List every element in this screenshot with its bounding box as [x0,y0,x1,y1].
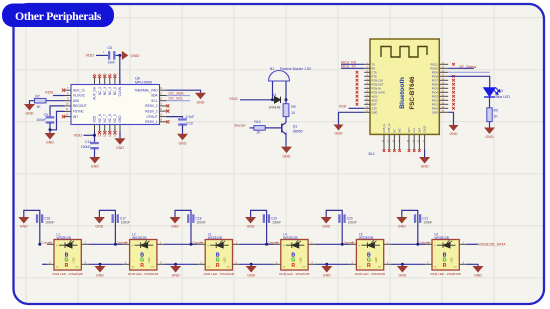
svg-text:GND: GND [322,225,330,229]
diode D4 1N4148 [275,97,281,103]
pin NC_3 (top) [104,78,106,85]
svg-text:VDD: VDD [339,104,347,108]
pin TX (BT left) [364,63,370,65]
svg-text:RGB LED - WS2812B: RGB LED - WS2812B [204,272,234,276]
svg-text:D3: D3 [499,89,503,93]
svg-text:GND: GND [197,101,205,105]
svg-text:VDD: VDD [74,133,83,138]
wire gnd rail L1 [88,263,122,265]
wire C21 feed [402,210,418,244]
svg-text:CPOUT: CPOUT [146,115,157,119]
no-connect RESV [166,104,169,107]
svg-text:PIO4: PIO4 [432,90,438,94]
svg-text:NC_7: NC_7 [103,114,107,122]
no-connect NC top [93,75,96,78]
wire to ground L4 [326,264,328,266]
wire to R9 [285,100,287,104]
svg-text:WS2812B: WS2812B [359,236,373,240]
wire R10 to base [265,127,282,129]
no-connect NC bottom [98,131,101,134]
junction at C8/CLKIN [118,54,121,57]
svg-text:GND: GND [172,274,180,278]
svg-text:WS2812B: WS2812B [132,236,146,240]
svg-text:CLKIN: CLKIN [118,86,122,96]
ground (Q1) [281,147,292,159]
svg-text:GND: GND [247,274,255,278]
wire C10 to ground [182,125,184,134]
wire D3 to R5 [489,97,491,108]
no-connect PIO2 [452,99,455,102]
svg-text:GND: GND [247,225,255,229]
svg-text:Buzzer: Buzzer [235,124,247,128]
svg-text:TX: TX [372,62,376,66]
svg-text:FSYNC: FSYNC [73,110,85,114]
pin NC_6 (bottom) [99,125,101,132]
svg-text:LED: LED [223,257,227,262]
wire VDD to 3.3V pin [349,107,365,109]
wire C9 bottom [49,123,51,130]
junction L2 VDD [114,243,117,246]
junction C9/FSYNC [49,128,52,131]
ground (L4 cap) [245,217,256,229]
svg-text:DO: DO [302,266,306,268]
antenna trace [381,47,427,58]
pin VSS (right bottom, L6) [459,263,466,265]
diode symbol inside L6 [437,240,456,248]
svg-text:GND: GND [486,135,494,139]
wire buzzer left leg [272,81,274,100]
wire C18 feed [175,210,191,244]
svg-text:GND: GND [432,110,438,114]
junction gnd rail L1 [99,263,102,266]
pin PCM SYNC (BT left) [364,91,370,93]
svg-text:GND: GND [372,110,378,114]
svg-text:RX: RX [372,66,376,70]
svg-text:REGOUT: REGOUT [73,104,87,108]
svg-text:LED: LED [450,257,454,262]
svg-text:DO: DO [227,266,231,268]
svg-text:100nF: 100nF [121,220,130,224]
svg-text:GND: GND [450,132,458,136]
svg-text:RESV_1: RESV_1 [145,120,157,124]
wire gnd rail end [466,263,472,265]
ground (L1 cap) [18,217,29,229]
svg-text:Cascade: Cascade [268,240,279,244]
wire VDD pin to C11 [94,132,96,144]
no-connect MIC- [398,149,401,152]
ground (L3 cap) [170,217,181,229]
ground (rail L3) [246,266,257,278]
pin PIO3 (BT right) [439,95,448,97]
pin RESV_1 (right) [160,121,167,123]
svg-text:PIO7: PIO7 [432,78,438,82]
ground (BT bottom) [419,157,430,169]
svg-text:LED: LED [147,257,151,262]
pin USB_D+ (BT bottom) [388,134,390,149]
LED L1 WS2812B body [54,240,81,271]
wire to ground L3 [250,264,252,266]
pin VDD (left top, L3) [198,243,205,245]
svg-text:PIO6: PIO6 [432,82,438,86]
svg-text:1N4148: 1N4148 [269,105,281,109]
svg-text:NC: NC [393,129,396,133]
svg-text:Q1: Q1 [293,124,298,128]
pin MIC- (BT bottom) [399,134,401,149]
wire PIO10 [448,67,474,69]
svg-text:Cascade: Cascade [419,240,430,244]
svg-text:B1: B1 [270,67,274,71]
no-connect INT [62,115,65,118]
pin THERMAL_PAD (right) [160,89,167,91]
svg-text:C9: C9 [44,113,48,117]
pin AIO0 (BT left) [364,95,370,97]
no-connect PIO3 [452,95,455,98]
svg-text:GND: GND [335,132,343,136]
no-connect PIO11 [452,63,455,66]
svg-text:1K: 1K [37,105,42,109]
svg-text:RGB LED - WS2812B: RGB LED - WS2812B [430,272,460,276]
wire GND pin to ground [339,112,365,124]
pin MIC+ (BT bottom) [408,134,410,149]
no-connect RTS [356,75,359,78]
no-connect PCM OUT [356,83,359,86]
no-connect MIC+ [408,149,411,152]
svg-text:I2C_SDA: I2C_SDA [169,91,185,95]
svg-text:Cascade: Cascade [41,240,52,244]
svg-text:DI: DI [207,266,210,268]
svg-text:D4: D4 [272,93,276,97]
wire GND pin [119,132,121,139]
svg-text:USB_D+: USB_D+ [388,123,391,133]
svg-text:PCM OUT: PCM OUT [372,82,384,86]
no-connect USB_D+ [388,149,391,152]
svg-text:R5: R5 [494,109,498,113]
svg-text:DO: DO [151,266,155,268]
wire data L2 to L3 [164,243,198,245]
svg-text:PIO1: PIO1 [432,102,438,106]
junction L5 VDD [341,243,344,246]
svg-text:1K: 1K [494,115,499,119]
junction L6 VDD [416,243,419,246]
svg-text:GND: GND [323,274,331,278]
svg-text:100nF: 100nF [45,220,54,224]
pin DOUT (right top, L5) [384,243,391,245]
svg-text:10nF: 10nF [108,60,116,64]
no-connect PIO0 [452,107,455,110]
svg-text:WS2812B: WS2812B [435,236,449,240]
svg-text:PCM SYNC: PCM SYNC [372,90,386,94]
pin PIO0 (BT right) [439,107,448,109]
svg-text:PIO0: PIO0 [432,106,438,110]
ground (thermal pad) [195,93,206,105]
svg-text:PCM IN: PCM IN [372,86,381,90]
svg-text:Passive Buzzer 1.5V: Passive Buzzer 1.5V [280,67,312,71]
pin PCM CLK (BT left) [364,79,370,81]
svg-text:C11: C11 [85,140,91,144]
svg-text:R: R [140,263,144,269]
svg-text:NC_3: NC_3 [103,87,107,95]
svg-text:PIO3: PIO3 [432,94,438,98]
svg-text:100nF: 100nF [348,220,357,224]
no-connect NC bottom [108,131,111,134]
ground (sideways GND port) [122,51,129,60]
wire CLKIN vertical [119,55,121,84]
wire DIN stub L1 [42,263,47,265]
no-connect CLK [413,149,416,152]
diode symbol inside L3 [210,240,229,248]
pin AD0 (left 3) [65,100,72,102]
pin VDD (left top, L6) [425,243,432,245]
wire SDA (highlighted) [167,95,191,97]
pin VDD (bottom) [94,125,96,132]
pin PIO7 (BT right) [439,79,448,81]
no-connect NC top [98,75,101,78]
ground (rail L4) [321,266,332,278]
svg-text:GND2: GND2 [424,125,427,132]
pin DIN (left bottom, L1) [47,263,54,265]
svg-text:SDA: SDA [151,94,158,98]
pin PIO11 (BT right) [439,63,448,65]
wire C16 feed [24,210,40,244]
ground (rail L1) [95,266,106,278]
svg-text:CLK: CLK [413,127,416,132]
no-connect PIO8 [452,75,455,78]
svg-text:NC_4: NC_4 [108,87,112,95]
capacitor C11 [90,142,99,149]
svg-text:I2C_SCL: I2C_SCL [169,97,184,101]
pin DAT (BT bottom) [418,134,420,149]
svg-text:NC_2: NC_2 [98,87,102,95]
IC U8 MPU-6050 body [71,85,160,125]
wire to ground L2 [175,264,177,266]
pin VSS (right bottom, L2) [157,263,164,265]
pin CPOUT (right) [160,116,167,118]
wire FSYNC to junction [50,111,65,129]
svg-text:GND: GND [179,142,187,146]
ground (C9) [45,133,56,145]
svg-text:Cascade: Cascade [193,240,204,244]
junction L4 VDD [265,243,268,246]
pin VSS (right bottom, L1) [81,263,88,265]
pin AUX_CL (left 1) [65,89,72,91]
svg-text:GND: GND [474,274,482,278]
pin VDD (left top, L5) [349,243,356,245]
svg-text:1K: 1K [256,131,261,135]
svg-text:AIO0: AIO0 [372,94,378,98]
pin 3.3V (BT left) [364,107,370,109]
no-connect RESV [166,120,169,123]
svg-text:C10: C10 [187,122,193,126]
no-connect AIO0 [356,95,359,98]
LED L6 WS2812B body [432,240,459,271]
pin PIO1 (BT right) [439,103,448,105]
svg-text:GND: GND [283,154,291,158]
wire C19 feed [251,210,267,244]
ground (L2 cap) [94,217,105,229]
no-connect NC top [108,75,111,78]
svg-text:Cascade: Cascade [344,240,355,244]
svg-text:BL1: BL1 [369,152,375,156]
svg-text:GND: GND [20,225,28,229]
no-connect NC bottom [103,131,106,134]
svg-text:DAT: DAT [418,127,421,132]
diode symbol inside L5 [361,240,380,248]
svg-text:RTS: RTS [372,74,377,78]
pin VSS (right bottom, L3) [233,263,240,265]
pin NC_9 (bottom) [114,125,116,132]
svg-text:Bluetooth: Bluetooth [399,77,406,109]
wire Buzzer to R10 [250,127,254,129]
no-connect RESV [166,110,169,113]
LED L2 WS2812B body [130,240,157,271]
ground (L6 cap) [396,217,407,229]
svg-text:Other Peripherals: Other Peripherals [15,9,102,23]
pin GND (bottom) [119,125,121,132]
no-connect DAT [418,149,421,152]
wire data L3 to L4 [240,243,274,245]
svg-text:PIO10: PIO10 [430,66,438,70]
wire gnd rail L2 [164,263,198,265]
pin DOUT (right top, L4) [308,243,315,245]
no-connect PCM IN [356,87,359,90]
pin PIO5 (BT right) [439,87,448,89]
resistor R5 [487,108,492,122]
wire PIO8 to LED D3 [448,76,490,87]
svg-text:PIO11: PIO11 [431,62,439,66]
junction gnd rail L4 [325,263,328,266]
no-connect PIO4 [452,91,455,94]
wire data L4 to L5 [315,243,349,245]
junction D4 anode [271,98,274,101]
svg-text:NC_5: NC_5 [113,87,117,95]
svg-text:VDD: VDD [229,96,238,101]
svg-text:WS2812B_DATA: WS2812B_DATA [478,242,506,246]
pin DOUT (right top, L2) [157,243,164,245]
pin CLK (BT bottom) [413,134,415,149]
pin DIN (left bottom, L3) [198,263,205,265]
no-connect CTS [356,71,359,74]
svg-text:MPU-6050: MPU-6050 [135,81,152,85]
ground (BT right) [449,125,459,136]
svg-text:RST: RST [372,102,378,106]
ground (R7) [24,104,35,116]
wire CPOUT to C10 [167,117,183,118]
pin PCM IN (BT left) [364,87,370,89]
capacitor C8 [108,51,115,60]
svg-text:100nF: 100nF [423,220,432,224]
svg-text:GND: GND [95,225,103,229]
svg-text:PIO5: PIO5 [432,86,438,90]
capacitor C16 [36,214,43,223]
svg-text:GND: GND [96,274,104,278]
svg-text:DO: DO [378,266,382,268]
ground (rail end) [473,266,484,278]
pin PCM OUT (BT left) [364,83,370,85]
LED D3 Blue LED [484,88,500,98]
svg-text:RGB LED - WS2812B: RGB LED - WS2812B [355,272,385,276]
wire BT bottom GND [424,150,426,158]
pin DOUT (right top, L3) [233,243,240,245]
no-connect NC [393,149,396,152]
pin SCL (right) [160,100,167,102]
capacitor C18 [187,214,194,223]
svg-text:DO: DO [76,266,80,268]
svg-text:Blue LED: Blue LED [496,95,511,99]
svg-text:PCM CLK: PCM CLK [372,78,384,82]
svg-text:LED: LED [72,257,76,262]
svg-text:PIO8: PIO8 [432,74,438,78]
pin GND (BT left) [364,111,370,113]
svg-text:AUX_DA: AUX_DA [93,86,97,100]
svg-text:GND: GND [46,141,54,145]
pin DIN (left bottom, L4) [274,263,281,265]
svg-text:GND: GND [421,165,429,169]
pin VSS (right bottom, L5) [384,263,391,265]
capacitor C21 [414,214,421,223]
wire data L1 to L2 [88,243,122,245]
svg-text:R7: R7 [36,94,40,98]
pin VLOGIC (left 2) [65,95,72,97]
pin DIN (left bottom, L2) [123,263,130,265]
wire PIO9 (highlighted) [448,71,490,73]
wire data out [466,243,478,245]
wire data L5 to L6 [391,243,425,245]
svg-text:LED: LED [374,257,378,262]
svg-text:R9: R9 [291,105,295,109]
no-connect NC top [103,75,106,78]
pin VDD (left top, L1) [47,243,54,245]
svg-text:RESV_2: RESV_2 [145,104,157,108]
svg-text:GND: GND [398,225,406,229]
junction VDD/C11 [93,134,96,137]
ground (rail L5) [397,266,408,278]
svg-text:AUX_CL: AUX_CL [73,88,86,92]
svg-text:2.2nF: 2.2nF [186,115,195,119]
wire to ground L1 [99,264,101,266]
pin USB_D- (BT bottom) [383,134,385,149]
wire C17 feed [99,210,115,244]
capacitor C9 [46,116,55,123]
pin FSYNC (left 5) [65,110,72,112]
junction gnd rail L5 [401,263,404,266]
svg-text:GND: GND [398,274,406,278]
wire C8 to junction [115,54,119,56]
pin AIO1 (BT left) [364,99,370,101]
module BL1 FSC-BT646 body [370,39,439,134]
ground (rail L2) [170,266,181,278]
ground (C10) [177,134,188,146]
pin AUX_DA (top) [94,78,96,85]
svg-text:R: R [65,263,69,269]
pin PIO4 (BT right) [439,91,448,93]
pin REGOUT (left 4) [65,105,72,107]
no-connect RST [356,103,359,106]
resistor R9 [283,104,289,117]
no-connect PIO6 [452,83,455,86]
svg-text:WS2812B: WS2812B [57,236,71,240]
pin PIO10 (BT right) [439,67,448,69]
pin NC_5 (top) [114,78,116,85]
diode symbol inside L1 [59,240,78,248]
pin VSS (right bottom, L4) [308,263,315,265]
svg-text:S8050: S8050 [293,129,303,133]
svg-text:RGB LED - WS2812B: RGB LED - WS2812B [128,272,158,276]
svg-text:R: R [291,263,295,269]
svg-text:MIC+: MIC+ [408,126,411,132]
svg-text:WS2812B: WS2812B [208,236,222,240]
wire R9 to Q1 collector [285,117,287,123]
pin PIO2 (BT right) [439,99,448,101]
